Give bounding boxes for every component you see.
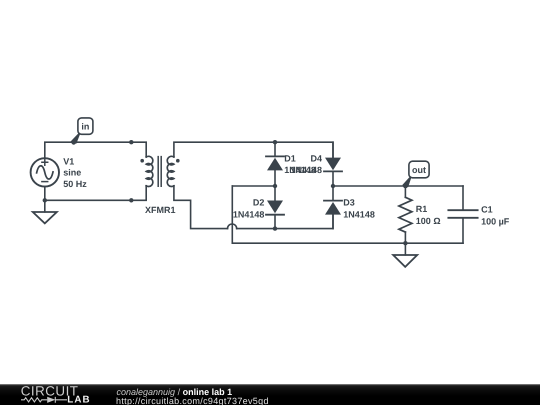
svg-text:LAB: LAB (67, 395, 90, 406)
junction at R1 bottom (403, 241, 407, 245)
label C1 100 uF (481, 205, 510, 227)
junction at V1 ground node (43, 198, 47, 202)
secondary coil (167, 156, 174, 186)
junction bottom of left branch (273, 226, 277, 230)
svg-text:in: in (81, 122, 89, 132)
label D3 (343, 198, 375, 220)
svg-text:C1: C1 (481, 205, 493, 215)
phase dot primary (140, 159, 144, 163)
label V1 sine 50 Hz (63, 157, 87, 189)
wire bottom output rail (232, 242, 463, 244)
svg-text:XFMR1: XFMR1 (145, 205, 176, 215)
junction mid right branch (331, 184, 335, 188)
wire left branch upper segment (274, 142, 276, 156)
capacitor C1 (448, 186, 477, 243)
wire top rail from V1 to transformer primary (45, 142, 146, 158)
svg-text:D1: D1 (284, 153, 296, 163)
svg-text:sine: sine (63, 168, 81, 178)
net flag out (403, 161, 429, 188)
diode D2 (266, 201, 284, 215)
junction node on bottom-left wire (129, 198, 133, 202)
wire mid rail left (bridge negative output) (232, 185, 275, 187)
resistor R1 (399, 186, 412, 243)
svg-text:50 Hz: 50 Hz (63, 179, 87, 189)
ground (left, at V1) (33, 200, 57, 223)
wire mid rail right (bridge positive output) (333, 185, 463, 187)
wire right branch middle segment (332, 171, 334, 200)
svg-text:D3: D3 (343, 198, 355, 208)
svg-text:V1: V1 (63, 157, 74, 167)
wire bottom rail to right branch (237, 215, 333, 229)
svg-text:D2: D2 (253, 198, 265, 208)
CircuitLab logo (0, 384, 100, 405)
wire hop over vertical net (228, 224, 237, 229)
wire secondary bottom with step (174, 186, 228, 229)
voltage source V1 (31, 158, 59, 186)
svg-text:1N4148: 1N4148 (343, 209, 375, 219)
diode D4 (324, 158, 342, 172)
wire bottom from V1 to transformer primary (45, 186, 146, 201)
svg-text:1N4148: 1N4148 (233, 209, 265, 219)
core lines (158, 157, 161, 187)
svg-text:100 Ω: 100 Ω (416, 216, 441, 226)
svg-text:R1: R1 (416, 204, 428, 214)
wire vertical net down from mid rail (231, 186, 233, 243)
phase dot secondary (176, 159, 180, 163)
diode D3 (324, 201, 342, 215)
label D2 (233, 198, 265, 220)
transformer XFMR1 (140, 156, 179, 186)
wire left branch lower segment (274, 215, 276, 229)
label D1 (284, 153, 316, 175)
junction node on top-left wire (129, 140, 133, 144)
diode D1 (266, 156, 284, 170)
svg-text:D4: D4 (310, 153, 322, 163)
ground (right, at R1/C1) (393, 243, 417, 267)
label R1 100 Ohm (416, 204, 441, 226)
svg-text:100 µF: 100 µF (481, 217, 510, 227)
label D4 (290, 153, 322, 175)
junction mid left branch (273, 184, 277, 188)
primary coil (146, 156, 153, 186)
wire left branch middle segment (274, 170, 276, 200)
wire secondary top rail to bridge (174, 142, 333, 157)
wire right branch upper segment (332, 142, 334, 157)
wire right branch lower segment (332, 215, 334, 229)
net flag in (71, 118, 93, 145)
junction at out node (403, 184, 407, 188)
junction top of left branch (273, 140, 277, 144)
svg-text:out: out (412, 165, 426, 175)
svg-text:1N4148: 1N4148 (290, 165, 322, 175)
